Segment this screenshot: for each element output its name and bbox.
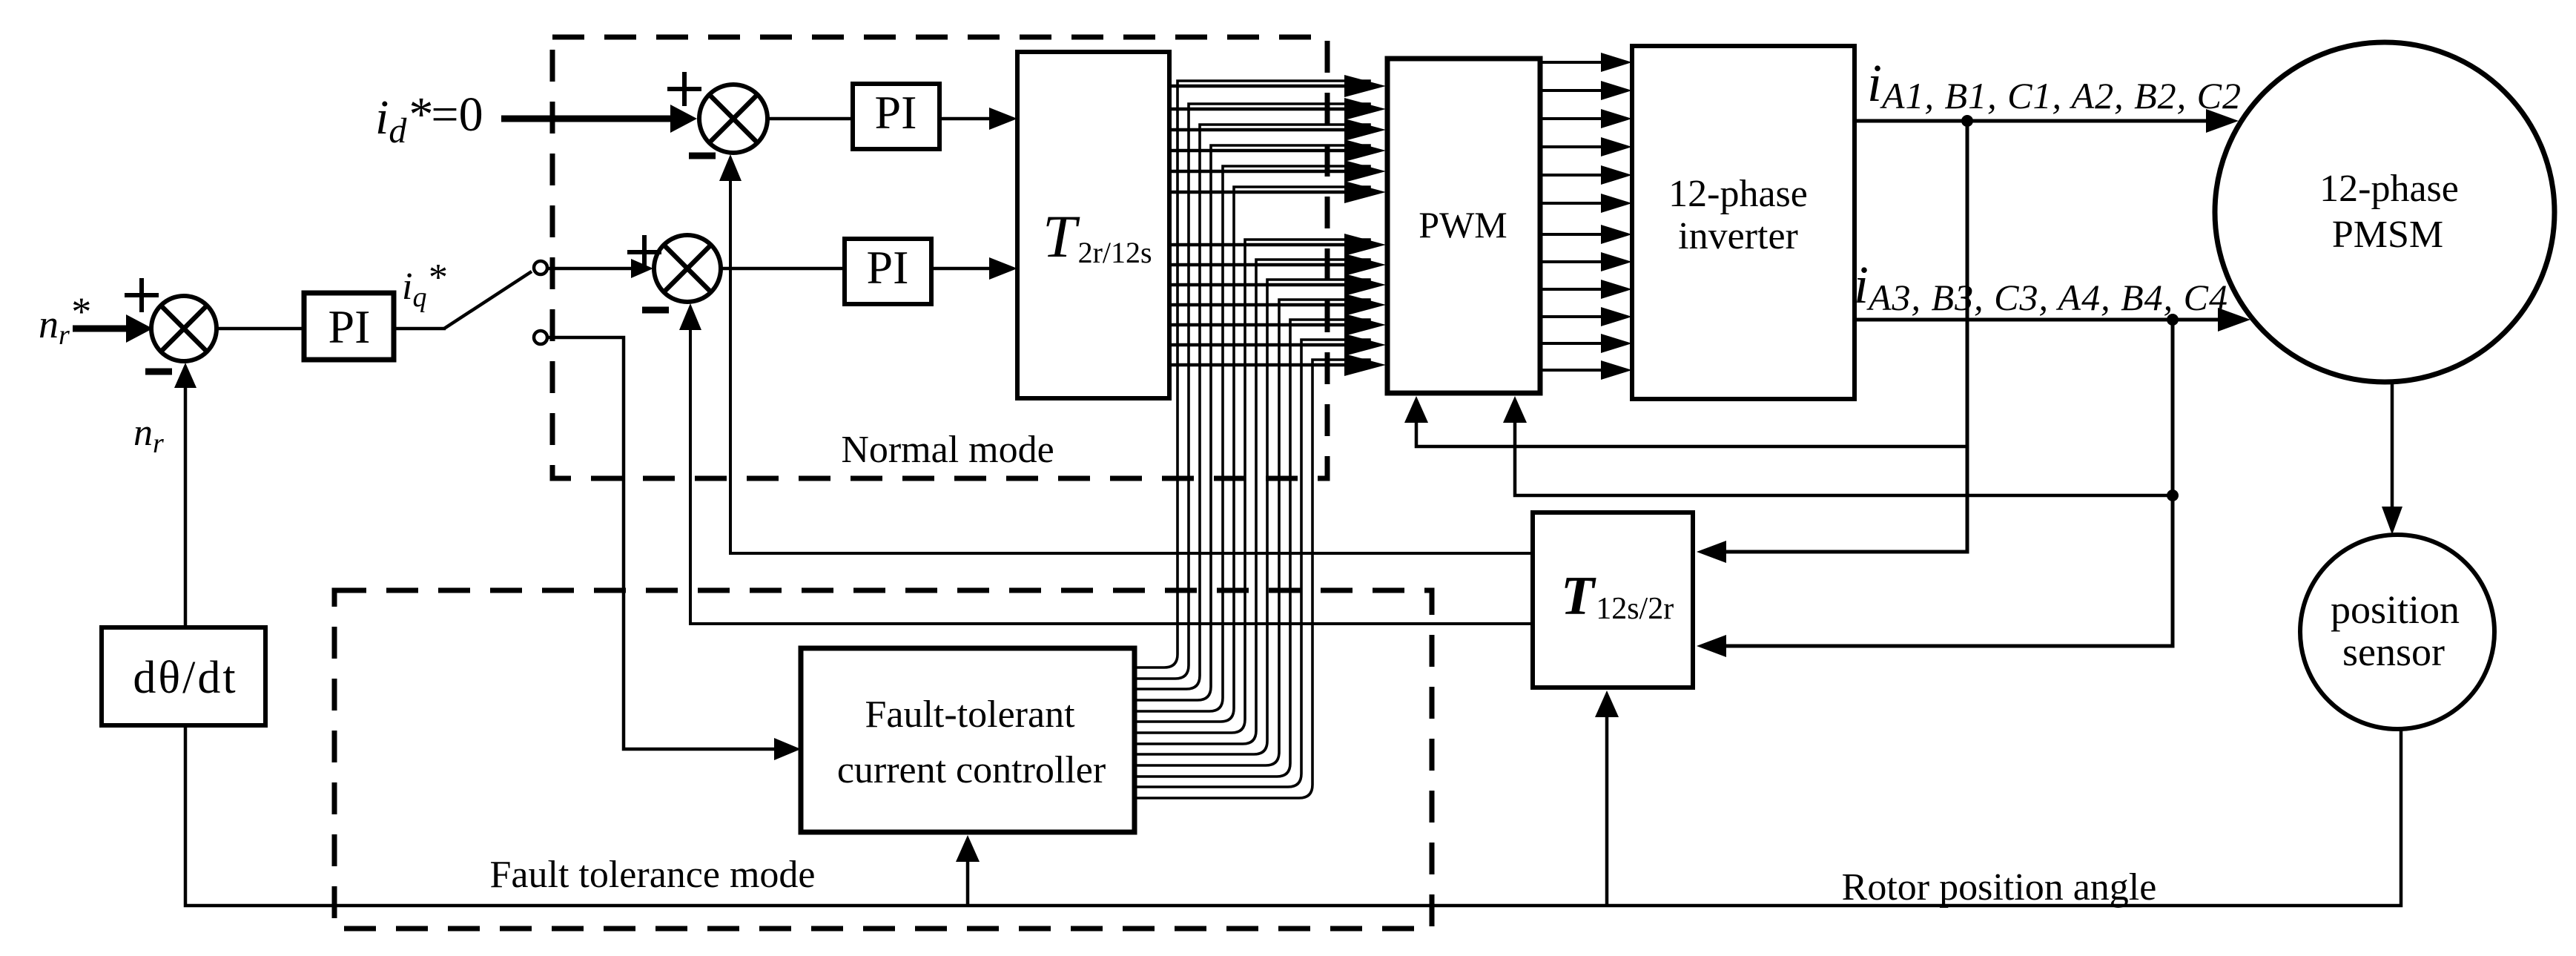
wire PWM to inverter 12	[1540, 369, 1603, 372]
wire fault controller output 11	[1137, 763, 1290, 777]
wire PWM to inverter 11	[1540, 342, 1603, 345]
wire rotor angle into T12s/2r bottom	[1605, 717, 1609, 906]
wire lower contact to fault-tolerant controller	[547, 337, 776, 749]
wire J3 to PI3	[767, 117, 853, 121]
wire branch rotor angle to fault controller	[966, 862, 970, 906]
wire PWM to inverter 8	[1540, 260, 1603, 263]
svg-text:PI: PI	[867, 241, 909, 294]
wire fault controller output 8	[1137, 731, 1256, 744]
wire branch bus2 to PWM	[1515, 423, 2173, 495]
plus sign J2	[627, 235, 661, 269]
wire fault controller output 7	[1137, 719, 1245, 733]
wire PWM to inverter 3	[1540, 117, 1603, 120]
wire PWM to inverter 10	[1540, 315, 1603, 318]
wire row 5 from T2r/12s to PWM	[1169, 170, 1345, 174]
wire fault controller output 1	[1137, 654, 1178, 667]
wire fault path 4 (vertical + companion)	[1211, 145, 1370, 687]
wire row 2 from T2r/12s to PWM	[1169, 108, 1345, 111]
wire fault controller output 3	[1137, 676, 1200, 689]
svg-text:PI: PI	[328, 300, 371, 353]
wire PMSM to position sensor	[2391, 382, 2394, 512]
wire PWM to inverter 4	[1540, 145, 1603, 148]
wire fault path 11 (vertical + companion)	[1290, 320, 1370, 763]
wire upper contact to J2	[547, 267, 633, 271]
block PWM	[1387, 59, 1540, 393]
wire fault path 8 (vertical + companion)	[1256, 260, 1370, 731]
wire row 8 from T2r/12s to PWM	[1169, 263, 1345, 267]
wire fault path 2 (vertical + companion)	[1189, 104, 1370, 665]
wire PI2 to T2r/12s with arrow	[931, 267, 997, 271]
dashed box: Normal mode	[552, 37, 1327, 478]
svg-text:12-phase: 12-phase	[1668, 173, 1808, 215]
svg-text:Fault-tolerant: Fault-tolerant	[865, 693, 1075, 736]
svg-text:12-phase: 12-phase	[2319, 168, 2459, 210]
summing junction J3 (id)	[699, 85, 767, 153]
wire PWM to inverter 7	[1540, 233, 1603, 236]
wire bus1 feedback down to T12s/2r	[1722, 121, 1967, 552]
wire id feedback (T12s/2r left out, top)	[730, 178, 1535, 553]
wire row 12 from T2r/12s to PWM	[1169, 343, 1345, 347]
wire nr feedback up to J1	[184, 388, 188, 627]
wire row 13 from T2r/12s to PWM	[1169, 363, 1345, 367]
dashed box: Fault tolerance mode	[334, 590, 1432, 929]
plus sign J3	[667, 72, 701, 106]
wire fault path 12 (vertical + companion)	[1301, 340, 1370, 774]
block T2r/12s (Park transform)	[1017, 52, 1169, 398]
summing junction J2 (iq)	[654, 235, 721, 302]
wire fault path 13 (vertical + companion)	[1312, 360, 1370, 785]
switch arm	[444, 271, 532, 329]
wire PI1 output	[393, 327, 446, 331]
wire fault controller output 9	[1137, 741, 1267, 754]
wire fault path 10 (vertical + companion)	[1279, 300, 1370, 752]
wire fault controller output 6	[1137, 708, 1234, 722]
wire fault path 9 (vertical + companion)	[1267, 280, 1370, 741]
switch contact lower	[534, 331, 547, 344]
wire PWM to inverter 9	[1540, 288, 1603, 291]
switch contact upper	[534, 261, 547, 274]
svg-text:current controller: current controller	[837, 749, 1106, 791]
wire row 7 from T2r/12s to PWM	[1169, 243, 1345, 247]
machine 12-phase PMSM	[2215, 42, 2554, 382]
wire fault path 6 (vertical + companion)	[1234, 187, 1370, 708]
wire fault controller output 13	[1137, 785, 1312, 798]
block PI3 (id controller)	[853, 84, 939, 149]
block T12s/2r (inverse transform)	[1533, 512, 1693, 688]
block 12-phase inverter	[1632, 46, 1855, 399]
sensor position sensor	[2300, 535, 2494, 729]
wire row 10 from T2r/12s to PWM	[1169, 303, 1345, 307]
block d0/dt	[102, 627, 265, 725]
wire row 3 from T2r/12s to PWM	[1169, 128, 1345, 132]
minus sign J3	[689, 153, 716, 159]
wire J1 to PI1	[217, 327, 306, 331]
svg-text:inverter: inverter	[1678, 215, 1798, 257]
svg-text:PMSM: PMSM	[2332, 214, 2443, 256]
wire bus iA1..C2	[1855, 119, 2215, 123]
wire PWM to inverter 1	[1540, 61, 1603, 64]
svg-text:dθ/dt: dθ/dt	[133, 653, 237, 703]
wire PWM to inverter 6	[1540, 202, 1603, 205]
wire fault controller output 12	[1137, 774, 1301, 787]
node junction bus2	[2167, 314, 2179, 326]
plus sign J1	[125, 278, 159, 312]
wire fault controller output 4	[1137, 687, 1211, 700]
wire row 1 from T2r/12s to PWM	[1169, 85, 1345, 88]
node junction bus2-PWM branch	[2167, 489, 2179, 501]
svg-text:Normal mode: Normal mode	[841, 429, 1054, 471]
wire row 6 from T2r/12s to PWM	[1169, 191, 1345, 194]
svg-text:PWM: PWM	[1419, 204, 1507, 245]
wire PWM to inverter 5	[1540, 174, 1603, 177]
wire row 9 from T2r/12s to PWM	[1169, 283, 1345, 287]
wire fault path 1 (vertical + companion)	[1178, 81, 1370, 654]
svg-text:Rotor position angle: Rotor position angle	[1842, 866, 2157, 909]
wire fault path 7 (vertical + companion)	[1245, 240, 1370, 719]
wire fault controller output 2	[1137, 665, 1189, 679]
wire PWM to inverter 2	[1540, 89, 1603, 92]
svg-text:Fault tolerance mode: Fault tolerance mode	[490, 854, 816, 896]
wire J2 to PI2	[721, 267, 845, 271]
minus sign J2	[642, 307, 669, 314]
block Fault-tolerant current controller	[801, 648, 1135, 832]
wire fault path 5 (vertical + companion)	[1223, 166, 1370, 698]
wire row 4 from T2r/12s to PWM	[1169, 149, 1345, 153]
svg-text:position: position	[2331, 587, 2460, 632]
block PI2 (iq controller)	[845, 239, 931, 304]
wire PI3 to T2r/12s with arrow	[939, 117, 997, 121]
wire row 11 from T2r/12s to PWM	[1169, 323, 1345, 327]
summing junction J1 (speed)	[151, 296, 217, 361]
block PI1 (speed controller)	[304, 293, 394, 360]
wire branch bus1 to PWM	[1416, 423, 1967, 446]
wire nr* input (thick)	[73, 326, 128, 332]
wire id* input (thick)	[501, 116, 672, 122]
minus sign J1	[145, 369, 172, 375]
wire rotor position angle (sensor to d0/dt)	[185, 725, 2401, 906]
wire fault controller output 10	[1137, 752, 1279, 765]
wire fault controller output 5	[1137, 698, 1223, 711]
wire bus iA3..C4	[1855, 318, 2227, 322]
wire fault path 3 (vertical + companion)	[1200, 125, 1370, 676]
wire bus2 feedback down to T12s/2r	[1722, 320, 2173, 646]
svg-text:sensor: sensor	[2342, 630, 2445, 674]
node junction bus1	[1961, 115, 1973, 127]
svg-text:PI: PI	[875, 86, 917, 139]
wire iq feedback (T12s/2r left out, bottom)	[690, 327, 1535, 624]
